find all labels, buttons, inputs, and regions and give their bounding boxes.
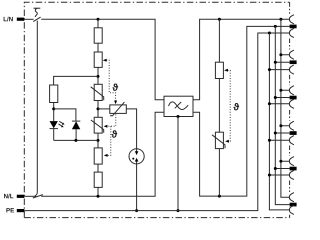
case border right (dashed segments between sockets) [289, 2, 291, 217]
socket group 5 contacts [289, 157, 294, 166]
socket group 4 stubs [269, 126, 289, 140]
node: PE bus start [268, 32, 271, 35]
wire R6 to RV4 [218, 79, 220, 133]
diode D1 (antiparallel) [72, 120, 80, 122]
gas discharge tube F2 [129, 149, 144, 164]
wire LED branch top [54, 76, 98, 85]
wire N from switch to filter N input [41, 112, 164, 196]
wire L output to socket rail [193, 19, 289, 99]
label theta2 [112, 130, 118, 137]
socket group 1: N pin [290, 25, 297, 29]
socket group 2 contacts [289, 50, 294, 59]
wire LED return [54, 139, 98, 141]
PE bus vertical to bottom socket [269, 33, 289, 210]
node: column to N rail [97, 195, 100, 198]
wire R4-R5 [97, 164, 99, 172]
label L/N [4, 17, 13, 22]
wire N output loop to socket rail [193, 26, 290, 196]
node: diode return [74, 139, 77, 142]
label PE [6, 208, 14, 212]
case border (dash-dot outline left+top) [24, 2, 289, 217]
wire LED cathode down [53, 129, 55, 141]
node: LED return tap [97, 139, 100, 142]
node: RV4 chain bottom [218, 195, 221, 198]
L bus vertical to bottom socket [281, 19, 290, 197]
socket group 1: PE contact arc [289, 28, 294, 37]
node: N bus start [274, 25, 277, 28]
label N/L [4, 194, 13, 199]
terminal N/L [17, 195, 25, 198]
switch blade S2 (N pole) [33, 195, 43, 198]
wire RV2 to gas discharge tube [126, 109, 136, 149]
LED emission arrows [58, 121, 63, 126]
resistor R4 [94, 148, 102, 164]
wire filter PE down [177, 117, 179, 211]
terminal PE [17, 209, 25, 212]
node: L bus start [279, 18, 282, 21]
label theta1 [112, 84, 118, 91]
mechanical link vertical (switch coupling) [35, 21, 37, 196]
socket group 6 (bottom) contacts [289, 193, 294, 202]
wire PE rail to socket rail [24, 33, 289, 211]
switch blade S1 (L pole) [33, 17, 40, 22]
thermal link theta3 (R6 to RV4) [228, 70, 231, 141]
varistor RV4 [215, 132, 223, 148]
LED V1 [50, 121, 58, 128]
node: filter PE on PE rail [177, 209, 180, 212]
varistor RV2 (horizontal) [110, 105, 127, 114]
socket group 1: L contact arc [289, 15, 294, 24]
filter sine symbol [169, 102, 189, 110]
resistor R3 [50, 85, 58, 103]
socket group 4 contacts [289, 121, 294, 130]
node: GDT on PE [135, 209, 138, 212]
wire L/N from terminal to switch [24, 18, 33, 20]
resistor R1 [94, 28, 102, 43]
socket group 3 stubs [269, 90, 289, 104]
resistor R6 [215, 62, 223, 78]
thermal link theta1 (R2 to RV2) [106, 60, 115, 101]
label theta3 [233, 103, 239, 110]
N bus vertical to bottom socket [275, 26, 289, 204]
node: RV4 chain tap [218, 18, 221, 21]
wire RV4 to N loop [218, 149, 220, 197]
thermal link theta2 (RV2 to RV3 and R4) [107, 114, 116, 155]
node: LED branch tap [97, 75, 100, 78]
resistor R2 [94, 52, 102, 67]
node: filter PE pin [177, 115, 180, 118]
wire to varistor RV2 [98, 108, 110, 110]
varistor RV3 [94, 117, 102, 133]
wire N/L from terminal to switch [24, 195, 36, 197]
thermal disconnector F1 top bar [34, 7, 41, 9]
wire R2 to varistor [97, 67, 99, 84]
resistor R5 [94, 172, 102, 187]
socket group 5 stubs [269, 161, 289, 175]
socket group 2 stubs [269, 55, 289, 70]
wire R3 to LED node [53, 103, 55, 122]
socket group 3 contacts [289, 86, 294, 95]
wire to diode top [54, 109, 76, 121]
terminal L/N [17, 18, 25, 21]
case border bottom [24, 217, 289, 219]
filter slash [175, 102, 181, 108]
varistor RV1 [94, 84, 102, 100]
wire GDT to PE rail [136, 164, 138, 211]
node: mid column / RV2 branch [97, 107, 100, 110]
wire L rail from switch to filter input corner [41, 19, 164, 99]
thermal disconnector F1 squiggle [35, 8, 37, 17]
wire RV3 to R4 [97, 133, 99, 148]
wire R1-R2 [97, 43, 99, 52]
filter U1 box [164, 96, 193, 116]
node: L rail / resistor column junction [97, 18, 100, 21]
wire RV4 chain top [218, 19, 220, 62]
wire R5 to N rail [97, 187, 99, 196]
wire RV1 to RV3 [97, 101, 99, 118]
node: LED anode junction [52, 107, 55, 110]
wire column top [97, 19, 99, 28]
